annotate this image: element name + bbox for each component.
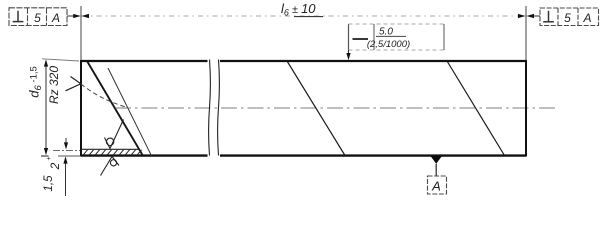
extension of bottom edge to the left <box>58 155 80 157</box>
dashed arc boundary of sheared zone <box>81 84 127 107</box>
svg-text:Rz 320: Rz 320 <box>47 66 61 104</box>
svg-text:1,5: 1,5 <box>43 175 55 192</box>
hatching of strip <box>83 150 142 155</box>
hardened strip top line <box>81 148 140 150</box>
datum box <box>428 176 447 194</box>
svg-text:l6 ± 10: l6 ± 10 <box>281 1 316 18</box>
fraction bar in straightness value <box>376 35 406 37</box>
shaft outline: right end face edge <box>525 60 527 157</box>
svg-text:5: 5 <box>564 11 571 25</box>
svg-text:5.0: 5.0 <box>379 27 393 38</box>
svg-text:5: 5 <box>34 11 41 25</box>
svg-text:A: A <box>431 179 441 194</box>
shear cut diagonal line 1 <box>87 61 143 156</box>
extension line of right end face <box>525 6 527 60</box>
leader arrow from FCF2 to right end face extension line <box>526 14 540 18</box>
diagonal mark R2 on body <box>447 61 505 156</box>
feature control frame FCF2 (perpendicularity 5 A) top-right box <box>540 8 599 26</box>
diagonal mark R1 on body <box>287 61 345 156</box>
feature control frame FCF1 (perpendicularity 5 A) top-left box <box>9 8 67 26</box>
leader of straightness callout with down arrow to top edge <box>346 50 350 60</box>
perpendicularity symbol in FCF2 <box>543 11 554 22</box>
svg-text:2: 2 <box>48 162 62 170</box>
extension line of left end face <box>80 6 82 60</box>
shaft outline: left end face edge <box>80 60 82 157</box>
perpendicularity symbol in FCF1 <box>13 11 24 22</box>
darker run of dimension line under the 10 <box>294 16 323 18</box>
break line left <box>209 60 211 156</box>
svg-text:+: + <box>46 156 53 160</box>
svg-text:(2,5/1000): (2,5/1000) <box>367 39 410 50</box>
short extension tick at bottom of d6 <box>41 155 49 157</box>
shaft outline: left section bottom edge <box>81 154 208 156</box>
straightness symbol (dash) <box>353 38 369 40</box>
shaft outline: right section bottom edge <box>220 154 526 156</box>
dimension arrow (2) upper, pointing down <box>64 138 68 149</box>
dimension line d6 with arrows <box>44 59 48 155</box>
no-machining roughness symbol lower (circle in vee, inverted) on bottom edge <box>101 157 120 176</box>
left arrowhead of dimension l6 <box>81 14 89 18</box>
leader arrow from FCF1 to left end face extension line <box>67 14 81 18</box>
svg-text:d6 -1,5: d6 -1,5 <box>27 66 45 98</box>
dimension line l6 +-10 <box>82 15 525 17</box>
shaft outline: left section top edge <box>81 60 208 62</box>
straightness tolerance callout frame <box>349 24 445 50</box>
no-machining roughness symbol upper (circle in vee) on strip <box>105 120 124 149</box>
datum feature triangle A on bottom edge <box>431 156 443 164</box>
break line right <box>218 60 220 156</box>
shaft outline: right section top edge <box>220 60 526 62</box>
dimension arrow (2) lower, pointing up, with tail line <box>63 156 67 196</box>
roughness symbol Rz 320 vee on left end face <box>66 77 81 91</box>
extension line from top-left corner for d6 <box>42 59 79 61</box>
svg-text:A: A <box>582 11 591 25</box>
datum stem <box>435 164 437 176</box>
shear cut diagonal line 2 <box>108 68 152 156</box>
svg-text:A: A <box>51 11 60 25</box>
centerline of shaft <box>115 107 558 109</box>
extension dash-dot of strip top line <box>53 149 80 151</box>
right arrowhead of dimension l6 <box>518 14 526 18</box>
